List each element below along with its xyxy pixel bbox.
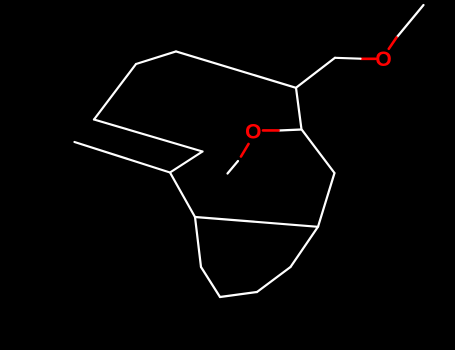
wire: ring side R4-R3: [257, 267, 291, 292]
wire: bond O2-CH3b (white half, diagonal): [228, 161, 239, 174]
wire: ring side V1-V2: [195, 217, 201, 267]
wire: bond K-CL2 (steep connector lower): [94, 64, 136, 120]
wire: bond O1-C2 (red half, horizontal stub): [361, 57, 376, 60]
wire: bond CA-V1 (link to ring): [170, 173, 195, 218]
wire: bond C5-C4: [302, 129, 335, 173]
svg-text:O: O: [245, 121, 261, 144]
wire: bond L2 (long chain segment down-right): [94, 120, 203, 152]
wire: ring top side V1-R2: [195, 217, 318, 227]
wire: bond L1end-K (steep connector upper): [136, 51, 176, 64]
wire: bond C2-C3: [296, 58, 335, 88]
wire: bond C3-L1 (long chain segment up-left): [176, 51, 296, 87]
wire: bond R2-C5 (ring to chain): [318, 173, 335, 227]
wire: bond CH3a methyl (white half, top right): [397, 5, 424, 37]
wire: ring side R3-R2: [291, 227, 319, 267]
wire: bond CB-CA (hairpin back): [170, 152, 203, 173]
wire: bond O1-CH3a (red half): [389, 38, 397, 49]
wire: bond O1-C2 (white half, horizontal): [335, 57, 361, 60]
svg-text:O: O: [375, 48, 391, 71]
wire: bond C4-O2 (red half, horizontal stub): [263, 129, 279, 132]
wire: ring bottom side V3-R4: [220, 292, 257, 297]
wire: ring side V2-V3: [201, 267, 220, 297]
wire: bond C3-C4 (near vertical): [296, 88, 302, 130]
wire: bond C4-O2 (white half, horizontal): [279, 130, 302, 131]
wire: bond L3 (chain segment to left terminus): [75, 142, 171, 173]
wire: bond O2-CH3b (red half, diagonal): [241, 144, 249, 157]
